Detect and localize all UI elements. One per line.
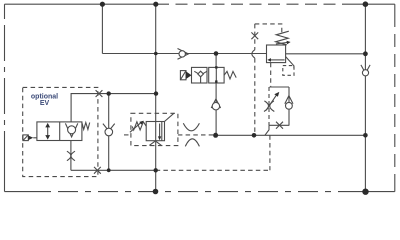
wire: main horizontal line y=135.3 bbox=[216, 134, 366, 136]
check valve CV1 on pressure line (free flow left) bbox=[178, 49, 189, 60]
wire: dashed link relief valve bottom to bypass rail bbox=[270, 63, 272, 87]
power unit enclosure boundary (dash-dot frame) bbox=[5, 4, 395, 191]
optional EV valve divider bbox=[59, 122, 61, 141]
bypass flow control: top rail bbox=[270, 86, 290, 88]
compensator valve body bbox=[146, 122, 164, 141]
bypass: check valve branch vertical bbox=[288, 87, 290, 125]
wire: solenoid valve outlet down through check to node bbox=[215, 83, 217, 135]
plugged port X top of optional box bbox=[96, 90, 103, 97]
EV1 solenoid (left) bbox=[180, 71, 186, 80]
bypass: bottom rail with plug bbox=[269, 124, 289, 126]
bypass check valve CV6 bbox=[285, 96, 293, 104]
wire: main vertical line x=155.7 lower part bbox=[155, 141, 157, 192]
RV1 adjustment arrow bbox=[276, 42, 288, 44]
variable restrictor arcs bbox=[264, 101, 269, 112]
compensator through passage bbox=[155, 122, 157, 141]
fixed orifice on dashed line y=134.9 bbox=[183, 123, 199, 131]
enclosure: relief valve dashed box partial top bbox=[255, 24, 282, 33]
compensator spring (left) bbox=[132, 122, 146, 130]
optional EV left position double arrow bbox=[47, 126, 49, 136]
wire: bypass check valve line x=108.7 bbox=[108, 94, 110, 171]
wire: vertical drop from top rail at x=102 bbox=[101, 4, 103, 53]
enclosure: relief pilot small dashed box bbox=[283, 66, 294, 76]
optional EV solenoid bbox=[23, 135, 28, 141]
check valve CV4 on solenoid outlet (seat above ball) bbox=[211, 99, 220, 108]
enclosure: optional EV dashed box bbox=[23, 87, 98, 176]
compensator inner wall bbox=[161, 122, 163, 141]
EV1 spring (right) bbox=[224, 71, 236, 79]
wire: dashed line y=134.9 through orifice to node bbox=[178, 134, 216, 136]
wire: solenoid valve feed x=216.1 upper bbox=[215, 54, 217, 68]
wire: dashed vertical x=269.9 to drain bbox=[269, 135, 271, 170]
junction node dots bbox=[100, 1, 369, 195]
compensator seat marks below bbox=[149, 141, 161, 146]
optional EV valve body bbox=[37, 122, 82, 141]
fixed orifice on optional valve drop x=70.9 bbox=[67, 151, 71, 161]
check valve CV2 on bypass line x=108.7 bbox=[103, 124, 115, 131]
wire: hop jog of drain line around pressure line bbox=[252, 50, 255, 58]
RV1 spring (top, zigzag) bbox=[276, 31, 289, 45]
plugged port X on bypass bottom rail bbox=[276, 122, 283, 129]
variable restrictor arrow bbox=[266, 95, 276, 110]
RV1 internal flow arrow (points left) bbox=[270, 59, 284, 61]
wire: main vertical line x=155.7 upper part bbox=[155, 4, 157, 121]
svg-text:EV: EV bbox=[40, 100, 50, 107]
wire: dashed drain from relief enclosure down to node x=254.8 bbox=[254, 24, 256, 50]
wire: dashed stub left of compensator box bbox=[124, 134, 131, 136]
bypass: variable restrictor branch vertical (dashed) bbox=[268, 87, 270, 125]
enclosure: compensator valve dashed box bbox=[131, 113, 178, 145]
wire: optional valve top port and horizontal link y=93.6 bbox=[71, 94, 156, 122]
plugged port X bottom of optional box bbox=[94, 167, 101, 174]
plugged vent X on relief enclosure bbox=[251, 32, 258, 39]
EV1 right position: blocked path with port tick marks bbox=[215, 67, 217, 83]
RV1 pilot diagonal to dashed box bbox=[286, 57, 294, 69]
wire: main pressure line y=53.5 into relief valve bbox=[102, 53, 266, 55]
compensator adjustment arrow bbox=[130, 123, 141, 133]
wire: optional valve bottom port drop x=70.9 bbox=[70, 141, 72, 171]
relief valve RV1 body bbox=[267, 45, 286, 63]
compensator internal arrow (down) bbox=[159, 124, 161, 137]
wire: drain line y=170.3 solid part bbox=[71, 169, 156, 171]
solenoid valve EV1 body left square bbox=[192, 67, 208, 83]
optional EV spring (top right, W) bbox=[82, 123, 90, 130]
wire: right main vertical line x=365.4 bbox=[364, 4, 366, 192]
optional EV right position check valve CV3 bbox=[65, 123, 77, 136]
wire: pressure line relief valve to right main line bbox=[286, 53, 366, 55]
compensator pilot diagonal bbox=[165, 113, 175, 121]
solenoid valve EV1 body right square bbox=[209, 67, 224, 83]
wire: dashed drain extension y=170.3 bbox=[156, 169, 270, 171]
bypass: jog down to main line bbox=[265, 125, 269, 135]
check valve CV5 on right main line bbox=[361, 65, 370, 73]
EV1 left position: poppet seat V and ball diamond bbox=[194, 71, 207, 73]
